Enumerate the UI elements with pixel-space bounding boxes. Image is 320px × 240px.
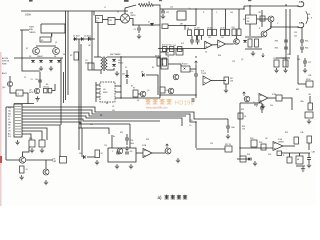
- resistor R32 box: [20, 166, 25, 173]
- wire br right drop: [309, 96, 311, 103]
- transistor Q3: [140, 91, 146, 97]
- wire bottom row rail: [158, 48, 205, 50]
- wire loop to relay: [51, 33, 53, 37]
- wire br bottom link2: [296, 165, 305, 167]
- buffer amp Q2b triangle: [218, 40, 226, 48]
- svg-text:A733: A733: [29, 91, 33, 94]
- wire drop 239: [238, 9, 240, 29]
- svg-text:100u: 100u: [130, 143, 134, 145]
- capacitor C5: [38, 80, 42, 82]
- svg-text:R14 C17 R15: R14 C17 R15: [162, 45, 172, 47]
- wire R27b link: [196, 148, 225, 150]
- ground G9: [283, 68, 287, 73]
- wire loop snubber: [177, 11, 186, 20]
- svg-text:PW: PW: [8, 108, 11, 110]
- junction dot bus c: [285, 4, 286, 5]
- wire top bus right: [160, 8, 244, 10]
- diode D2: [81, 37, 83, 41]
- svg-text:C29: C29: [210, 143, 213, 145]
- ground G18: [125, 146, 129, 151]
- watermark orange text: [146, 99, 151, 104]
- capacitor C23 on rail B: [300, 47, 304, 49]
- ground G1: [39, 66, 43, 71]
- wire Q10 collector: [9, 76, 11, 81]
- wire bl link: [6, 159, 19, 161]
- resistor R12b box: [237, 29, 241, 36]
- wire left cluster bus: [31, 57, 63, 59]
- diode D15: [243, 40, 247, 42]
- wire loop to opamp: [136, 152, 143, 154]
- resistor R55 box: [296, 156, 303, 164]
- svg-text:2W10: 2W10: [131, 15, 136, 17]
- wire vertical left-mid B: [80, 44, 82, 128]
- transistor Q7: [244, 96, 250, 102]
- diode D11: [31, 60, 35, 62]
- svg-text:PC817: PC817: [182, 64, 188, 66]
- svg-text:Z02: Z02: [122, 74, 125, 76]
- junction dot bus b: [243, 8, 244, 9]
- ground G8: [274, 68, 278, 73]
- svg-text:R6 102: R6 102: [44, 86, 50, 88]
- resistor R8 box: [188, 30, 192, 36]
- IC U6 box: [161, 59, 168, 69]
- resistor R2A box: [238, 113, 243, 119]
- capacitor C25: [116, 152, 120, 154]
- capacitor C20 on rail A: [284, 40, 288, 42]
- transistor Q12: [168, 88, 174, 94]
- svg-text:C21: C21: [104, 145, 107, 147]
- capacitor C4 on bridge output: [137, 28, 141, 30]
- wire U8 out: [211, 80, 226, 82]
- svg-text:D4: D4: [63, 54, 65, 56]
- wire secondary top: [107, 56, 160, 58]
- junction dot harness: [195, 121, 196, 122]
- ground G28: [301, 167, 305, 172]
- ground G11: [261, 104, 265, 109]
- junction dot rail4: [195, 94, 196, 95]
- svg-text:R12: R12: [232, 27, 235, 29]
- wire AC drop left: [91, 11, 93, 70]
- svg-text:www.dzsc999.com: www.dzsc999.com: [146, 106, 167, 110]
- svg-text:a): a): [158, 195, 163, 200]
- U1 pin 6: [115, 97, 121, 99]
- svg-text:Q1: Q1: [55, 42, 57, 44]
- wire Q14 base: [45, 160, 47, 169]
- wire feed loop a: [129, 124, 131, 148]
- svg-text:UGH: UGH: [25, 13, 31, 17]
- wire connector top stub: [14, 103, 34, 105]
- resistor R54 box: [287, 157, 292, 163]
- wire harness line 7: [22, 125, 60, 157]
- svg-text:R22: R22: [146, 139, 149, 141]
- ground G14: [30, 148, 34, 153]
- svg-text:R49: R49: [296, 89, 299, 91]
- wire harness line 9: [22, 131, 42, 140]
- transistor Q4: [234, 39, 240, 45]
- wire U12 out: [282, 145, 295, 147]
- svg-text:R33: R33: [275, 41, 278, 43]
- wire opto feed: [160, 51, 166, 53]
- wire speaker return: [301, 27, 303, 36]
- op-amp U12: [273, 142, 283, 151]
- capacitor C13: [190, 40, 194, 42]
- wire vertical right rail A: [285, 9, 287, 67]
- svg-text:7.5: 7.5: [17, 94, 20, 96]
- ground G10: [303, 68, 307, 73]
- transistor Q5: [268, 16, 274, 22]
- wire Q5 to lower bus: [270, 22, 272, 27]
- resistor R18 box: [261, 144, 266, 150]
- component C9 box: [160, 87, 165, 93]
- wire harness line 3: [22, 113, 186, 116]
- ground G21: [176, 158, 180, 163]
- transistor Q8: [33, 48, 40, 55]
- svg-text:4R7: 4R7: [180, 23, 183, 25]
- wire U1 bottom: [106, 102, 108, 104]
- wire R48 right: [282, 98, 292, 110]
- svg-text:Q3: Q3: [147, 90, 149, 92]
- connector CN1 body: [14, 104, 22, 137]
- wire primary bottom: [94, 70, 101, 74]
- wire vertical center-left D: [63, 72, 65, 103]
- transformer T1 core: [103, 57, 104, 72]
- svg-text:Q10: Q10: [2, 87, 5, 89]
- capacitor C31: [192, 98, 194, 102]
- svg-text:R23: R23: [241, 109, 244, 111]
- resistor C6b box: [200, 30, 204, 36]
- svg-text:R27 1K: R27 1K: [225, 144, 232, 146]
- svg-text:Q1: Q1: [205, 52, 207, 54]
- wire R54 drop: [289, 153, 291, 157]
- wire harness line 1: [22, 107, 228, 119]
- wire opto out: [190, 68, 196, 70]
- capacitor C14: [196, 40, 200, 42]
- svg-text:L1: L1: [104, 7, 106, 9]
- capacitor C28: [254, 103, 258, 105]
- svg-text:R20: R20: [120, 132, 123, 134]
- wire zener drop: [126, 70, 128, 75]
- ground G16: [20, 175, 24, 180]
- diode D8: [142, 73, 144, 77]
- caption glyph ban: [171, 195, 175, 199]
- wire primary top: [94, 56, 101, 58]
- junction dot rail1: [159, 56, 160, 57]
- resistor C17 box: [170, 47, 174, 52]
- wire bridge output down: [130, 19, 160, 26]
- wire stub left column: [21, 30, 23, 66]
- wire Q10 emitter: [10, 87, 16, 93]
- svg-text:D16: D16: [79, 153, 82, 155]
- diode D1: [74, 37, 76, 41]
- svg-text:R35: R35: [275, 48, 278, 50]
- svg-text:7805: 7805: [29, 27, 35, 29]
- supply arrow A2: [243, 92, 246, 96]
- wire bus to speaker lower: [270, 26, 298, 28]
- wire C5 drop: [39, 72, 41, 88]
- wire IC5 to bus: [249, 5, 251, 15]
- capacitor C22 on rail B: [300, 40, 304, 42]
- resistor R31 box: [39, 140, 45, 147]
- svg-text:F1: F1: [117, 12, 119, 14]
- supply arrow A4: [166, 144, 169, 148]
- svg-text:C1: C1: [24, 77, 26, 79]
- svg-text:R2: R2: [70, 55, 72, 57]
- wire top bus left: [21, 10, 128, 12]
- wire D8 right: [146, 75, 158, 95]
- buffer amp Q1 triangle: [205, 41, 213, 49]
- transistor Q16: [165, 148, 171, 154]
- wire U1 left rail: [95, 82, 97, 102]
- wire Q13 out: [26, 159, 53, 161]
- svg-text:C26: C26: [287, 54, 290, 56]
- transformer T1 secondary: [106, 57, 108, 70]
- caption glyph zhu: [165, 195, 169, 199]
- caption glyph dian: [177, 195, 181, 199]
- relay K1 box: [40, 37, 51, 42]
- resistor R45 box: [274, 60, 279, 67]
- ground G13: [15, 140, 19, 145]
- component U5 box: [176, 49, 183, 55]
- wire top br: [240, 102, 262, 104]
- svg-text:R18: R18: [259, 142, 262, 144]
- wire harness line 8: [22, 128, 47, 140]
- resistor R17 box: [224, 77, 229, 84]
- resistor R29 box: [255, 39, 259, 47]
- svg-text:104: 104: [297, 59, 300, 61]
- wire mid rail down: [195, 80, 197, 98]
- wire bridge to fuse resistor: [125, 5, 136, 14]
- transistor Q10: [7, 81, 12, 86]
- wire C2A to C2B: [103, 19, 109, 21]
- svg-text:C10: C10: [190, 71, 193, 73]
- wire harness line 10: [22, 134, 31, 140]
- resistor R12 box: [232, 29, 236, 36]
- capacitor C32: [226, 126, 230, 128]
- junction dot A: [184, 25, 185, 26]
- resistor R47 box: [306, 81, 313, 87]
- ground G20b: [129, 164, 133, 169]
- bridge rectifier BD1: [120, 14, 129, 23]
- resistor R51 box: [294, 137, 299, 144]
- capacitor C27: [303, 61, 307, 63]
- U1 pin 1: [96, 84, 100, 86]
- wire regulator input: [20, 29, 29, 31]
- resistor R50 box: [308, 103, 313, 110]
- svg-text:R56: R56: [247, 154, 250, 156]
- diode D14: [57, 60, 61, 62]
- svg-text:R25: R25: [285, 132, 288, 134]
- junction dot rail3: [159, 94, 160, 95]
- op-amp U3: [259, 94, 268, 103]
- wire Q8-Q9 top link: [36, 45, 56, 47]
- component box br corner: [277, 151, 282, 156]
- wire secondary bottom: [107, 68, 114, 70]
- diode D16: [83, 155, 85, 159]
- wire drop 262: [261, 10, 263, 27]
- svg-text:SW TRANS: SW TRANS: [110, 53, 121, 56]
- svg-text:R5: R5: [131, 86, 133, 88]
- transformer T1 primary: [101, 57, 103, 70]
- connector CN1 pins: [15, 105, 21, 107]
- ground G25: [307, 163, 311, 168]
- IC U1 KA3842 box: [100, 82, 115, 102]
- wire bus step up: [243, 6, 245, 9]
- wire C2A feed: [93, 11, 95, 16]
- diode D13: [49, 60, 53, 62]
- resistor R1B box: [251, 140, 257, 147]
- svg-text:R38: R38: [307, 14, 310, 16]
- resistor C8 box: [208, 29, 212, 35]
- ground G20: [115, 164, 119, 169]
- component U9 box: [60, 157, 67, 164]
- junction dot mid: [120, 97, 121, 98]
- wire vertical center-left B: [67, 11, 69, 95]
- wire top-mid junction: [159, 9, 161, 25]
- transistor Q2: [34, 88, 39, 93]
- resistor R9 pair: [157, 58, 161, 66]
- resistor R30 box: [29, 140, 35, 147]
- svg-text:Q9: Q9: [241, 59, 243, 61]
- svg-text:D8: D8: [141, 72, 143, 74]
- resistor R15 box: [178, 47, 182, 52]
- svg-text:50Hz IN: 50Hz IN: [2, 61, 10, 63]
- wire R52 drop: [308, 143, 310, 150]
- svg-text:C24: C24: [130, 140, 133, 142]
- wire vertical right rail B: [289, 9, 291, 55]
- ground G3: [137, 34, 141, 39]
- fusible resistor FR1 zigzag: [138, 3, 153, 6]
- svg-text:C6 103: C6 103: [194, 28, 200, 30]
- svg-text:78R05: 78R05: [29, 32, 36, 34]
- wire IC to opto: [168, 64, 181, 66]
- wire drop 196: [195, 9, 197, 26]
- wire mid link: [120, 78, 122, 98]
- junction dot loop: [51, 34, 52, 35]
- component C16 box: [305, 112, 313, 118]
- top edge artifacts: [29, 0, 33, 2]
- resistor C8b box: [213, 29, 217, 35]
- svg-text:HD198: HD198: [175, 100, 194, 106]
- svg-text:FG: FG: [8, 136, 11, 138]
- zener ZD1: [150, 23, 154, 25]
- capacitor C26b: [125, 152, 129, 154]
- capacitor C2B box: [108, 18, 115, 25]
- wire primary feed: [97, 23, 99, 58]
- wire top bus far right: [244, 5, 298, 7]
- transistor Q11: [173, 74, 179, 80]
- svg-text:C8: C8: [137, 100, 139, 102]
- svg-text:D4: D4: [54, 56, 56, 58]
- transistor Q13: [19, 157, 25, 163]
- junction dot bus a: [195, 8, 196, 9]
- wire vertical center-left A: [65, 11, 67, 100]
- ground G19: [95, 160, 99, 165]
- svg-text:7W: 7W: [258, 12, 261, 14]
- svg-text:R36: R36: [305, 48, 308, 50]
- optocoupler U7 box: [181, 66, 190, 72]
- svg-text:C26: C26: [273, 58, 276, 60]
- wire drop 185: [184, 26, 186, 30]
- resistor R40 box: [16, 90, 23, 96]
- wire Q5 to Q6: [266, 22, 271, 31]
- svg-text:104: 104: [294, 36, 297, 38]
- wire R55 drop: [299, 153, 301, 156]
- svg-text:104: 104: [308, 94, 311, 96]
- transistor Q9: [53, 48, 60, 55]
- wire U3 output: [268, 97, 276, 99]
- svg-text:102: 102: [173, 45, 176, 47]
- U1 pin 3: [96, 92, 100, 94]
- junction dot bridge out: [132, 24, 133, 25]
- wire harness line 6: [22, 122, 130, 124]
- svg-text:C27: C27: [308, 62, 311, 64]
- transistor Q15: [117, 148, 123, 154]
- svg-text:Z1: Z1: [148, 22, 150, 24]
- vertical link C6 caps: [196, 36, 198, 40]
- wire bc loop: [108, 148, 136, 162]
- ground G17: [44, 180, 48, 185]
- ground G15: [40, 148, 44, 153]
- svg-text:R39: R39: [90, 124, 93, 126]
- wire feed loop b: [111, 135, 113, 148]
- capacitor C34: [248, 158, 252, 160]
- capacitor C11: [161, 11, 165, 13]
- capacitor C2A box: [96, 16, 103, 23]
- capacitor C24: [125, 138, 129, 140]
- speaker terminal upper: [298, 2, 304, 7]
- svg-text:104: 104: [35, 79, 38, 81]
- wire vertical left-mid A: [78, 39, 80, 150]
- wire low rail: [245, 48, 262, 50]
- ground G12: [224, 88, 228, 93]
- wire low rail drop: [159, 25, 161, 98]
- svg-text:C4: C4: [134, 29, 136, 31]
- wire secondary drop: [120, 57, 122, 78]
- svg-text:1u: 1u: [96, 21, 98, 23]
- wire 4R7 link: [168, 25, 196, 27]
- U1 pin 7: [115, 91, 121, 93]
- svg-text:A01: A01: [299, 1, 302, 4]
- svg-text:IC5: IC5: [247, 18, 250, 20]
- svg-text:103: 103: [208, 37, 211, 39]
- svg-text:D1 4007: D1 4007: [73, 36, 80, 38]
- wire bc link1: [87, 156, 95, 158]
- svg-text:R7: R7: [133, 88, 135, 90]
- svg-text:B+: B+: [190, 125, 192, 127]
- component box small: [162, 24, 168, 29]
- svg-text:C11: C11: [166, 12, 169, 14]
- svg-text:R3: R3: [152, 67, 154, 69]
- ground G24: [253, 161, 257, 166]
- left page edge (pink scan border): [0, 52, 2, 206]
- svg-text:R30: R30: [29, 138, 32, 140]
- wire feed to D16: [81, 128, 83, 157]
- capacitor C21 on rail A: [284, 47, 288, 49]
- capacitor C33 plus: [260, 107, 264, 109]
- wire br bottom rail: [282, 152, 311, 154]
- junction dot secondary: [120, 56, 121, 57]
- caption glyph lu: [183, 195, 187, 199]
- capacitor C35: [307, 158, 311, 160]
- resistor R48 box: [276, 95, 282, 101]
- wire U11 out: [152, 152, 165, 154]
- op-amp U11: [143, 149, 152, 158]
- svg-text:473: 473: [181, 43, 184, 45]
- wire R47 link: [298, 83, 306, 85]
- capacitor C3 box: [88, 63, 94, 70]
- transistor Q6: [261, 31, 267, 37]
- capacitor C30: [194, 74, 198, 76]
